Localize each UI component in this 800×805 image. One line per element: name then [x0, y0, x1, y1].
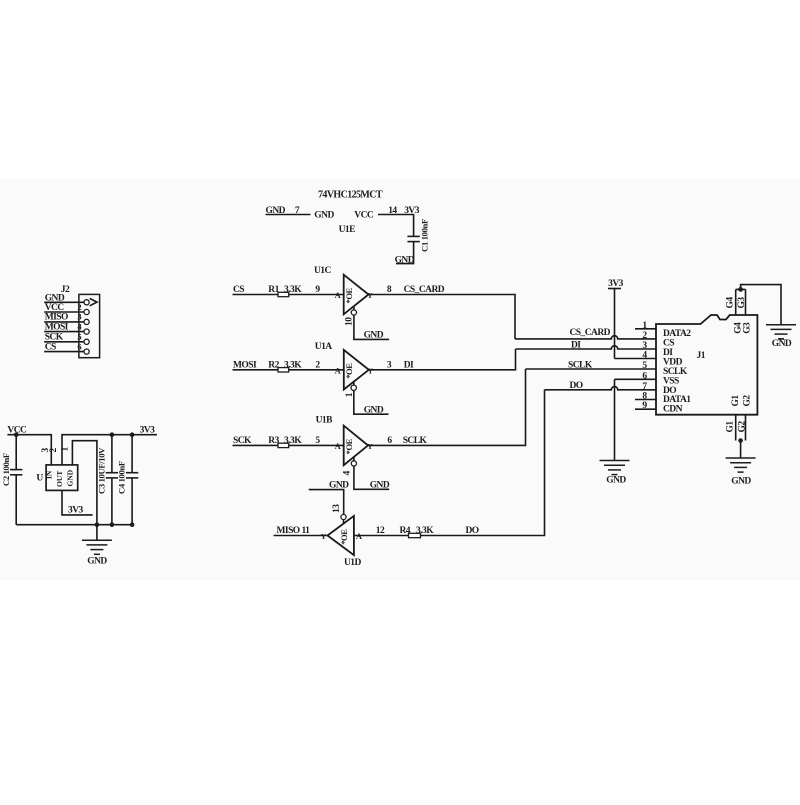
svg-text:13: 13: [332, 504, 342, 513]
svg-text:CS: CS: [233, 285, 244, 295]
svg-text:3V3: 3V3: [404, 206, 420, 216]
svg-text:3.3K: 3.3K: [284, 360, 302, 370]
svg-text:R3: R3: [268, 436, 279, 446]
svg-text:GND: GND: [45, 294, 65, 304]
svg-text:8: 8: [387, 285, 392, 295]
svg-text:G2: G2: [737, 421, 747, 433]
svg-text:3.3K: 3.3K: [416, 526, 434, 536]
svg-text:U: U: [36, 474, 43, 484]
svg-text:U1C: U1C: [314, 266, 332, 276]
svg-text:G3: G3: [742, 322, 752, 334]
svg-text:3.3K: 3.3K: [284, 436, 302, 446]
svg-text:R1: R1: [268, 285, 279, 295]
svg-text:MISO 11: MISO 11: [277, 526, 311, 536]
svg-text:3.3K: 3.3K: [284, 285, 302, 295]
svg-text:U1D: U1D: [344, 558, 362, 568]
svg-text:12: 12: [376, 526, 385, 536]
svg-text:U1A: U1A: [315, 342, 333, 352]
svg-text:Y: Y: [321, 532, 327, 541]
svg-text:5: 5: [77, 331, 81, 341]
svg-text:CS_CARD: CS_CARD: [570, 328, 611, 338]
svg-text:2: 2: [315, 360, 320, 370]
svg-text:G3: G3: [737, 297, 747, 309]
svg-text:3V3: 3V3: [608, 279, 624, 289]
svg-text:G2: G2: [742, 395, 752, 407]
svg-text:CS_CARD: CS_CARD: [404, 285, 445, 295]
svg-text:GND: GND: [395, 256, 415, 266]
svg-text:3V3: 3V3: [140, 425, 156, 435]
svg-text:DATA2: DATA2: [663, 329, 691, 339]
svg-text:MISO: MISO: [45, 313, 68, 323]
svg-text:3V3: 3V3: [68, 506, 84, 516]
svg-text:VCC: VCC: [45, 303, 65, 313]
svg-text:10: 10: [344, 317, 354, 326]
svg-text:GND: GND: [329, 480, 349, 490]
svg-text:*OE: *OE: [344, 363, 354, 379]
svg-text:GND: GND: [364, 406, 384, 416]
svg-text:CDN: CDN: [663, 405, 683, 415]
svg-text:6: 6: [77, 341, 81, 351]
svg-text:C4 100nF: C4 100nF: [117, 461, 127, 494]
svg-text:2: 2: [77, 302, 81, 312]
svg-text:CS: CS: [663, 339, 674, 349]
svg-text:74VHC125MCT: 74VHC125MCT: [318, 189, 383, 200]
svg-text:U1B: U1B: [316, 415, 334, 425]
svg-text:SCK: SCK: [45, 332, 64, 342]
svg-text:DI: DI: [404, 361, 414, 371]
svg-text:GND: GND: [364, 330, 384, 340]
svg-text:C1 100nF: C1 100nF: [420, 219, 430, 252]
svg-text:GND: GND: [66, 469, 75, 486]
svg-text:SCLK: SCLK: [568, 360, 593, 370]
svg-text:DATA1: DATA1: [663, 395, 691, 405]
svg-text:GND: GND: [772, 339, 792, 349]
svg-text:R4: R4: [400, 526, 411, 536]
svg-text:4: 4: [77, 322, 82, 332]
svg-text:*OE: *OE: [344, 287, 354, 303]
svg-text:J1: J1: [697, 351, 706, 361]
svg-text:VDD: VDD: [663, 357, 683, 367]
svg-text:GND: GND: [731, 477, 751, 487]
svg-text:5: 5: [315, 436, 320, 446]
svg-text:DO: DO: [570, 381, 583, 391]
svg-text:9: 9: [315, 285, 320, 295]
svg-text:GND: GND: [87, 557, 107, 567]
svg-text:Y: Y: [368, 366, 374, 375]
svg-text:GND: GND: [266, 206, 286, 216]
svg-text:C3 10UF/10V: C3 10UF/10V: [96, 447, 106, 494]
svg-text:G1: G1: [725, 421, 735, 433]
svg-text:VCC: VCC: [354, 211, 374, 221]
svg-text:GND: GND: [314, 211, 334, 221]
svg-text:IN: IN: [44, 470, 53, 479]
svg-text:*OE: *OE: [344, 438, 354, 454]
svg-text:MOSI: MOSI: [45, 323, 69, 333]
svg-text:Y: Y: [367, 291, 373, 300]
svg-text:4: 4: [343, 471, 353, 476]
svg-text:SCLK: SCLK: [403, 436, 428, 446]
svg-text:C2 100nF: C2 100nF: [1, 453, 11, 486]
svg-text:DI: DI: [571, 341, 581, 351]
svg-text:R2: R2: [268, 360, 279, 370]
svg-text:6: 6: [387, 436, 392, 446]
svg-text:G4: G4: [726, 297, 736, 309]
svg-text:GND: GND: [370, 480, 390, 490]
svg-text:GND: GND: [606, 476, 626, 486]
svg-text:G1: G1: [731, 395, 741, 407]
svg-text:SCK: SCK: [233, 436, 252, 446]
svg-text:3: 3: [77, 312, 81, 322]
svg-text:14: 14: [388, 206, 397, 216]
svg-text:CS: CS: [45, 342, 56, 352]
svg-text:MOSI: MOSI: [233, 360, 257, 370]
svg-text:VSS: VSS: [663, 376, 679, 386]
svg-text:U1E: U1E: [339, 225, 356, 235]
svg-text:OUT: OUT: [55, 471, 64, 487]
svg-text:Y: Y: [367, 442, 373, 451]
svg-text:*OE: *OE: [339, 529, 349, 545]
svg-text:DO: DO: [466, 526, 479, 536]
